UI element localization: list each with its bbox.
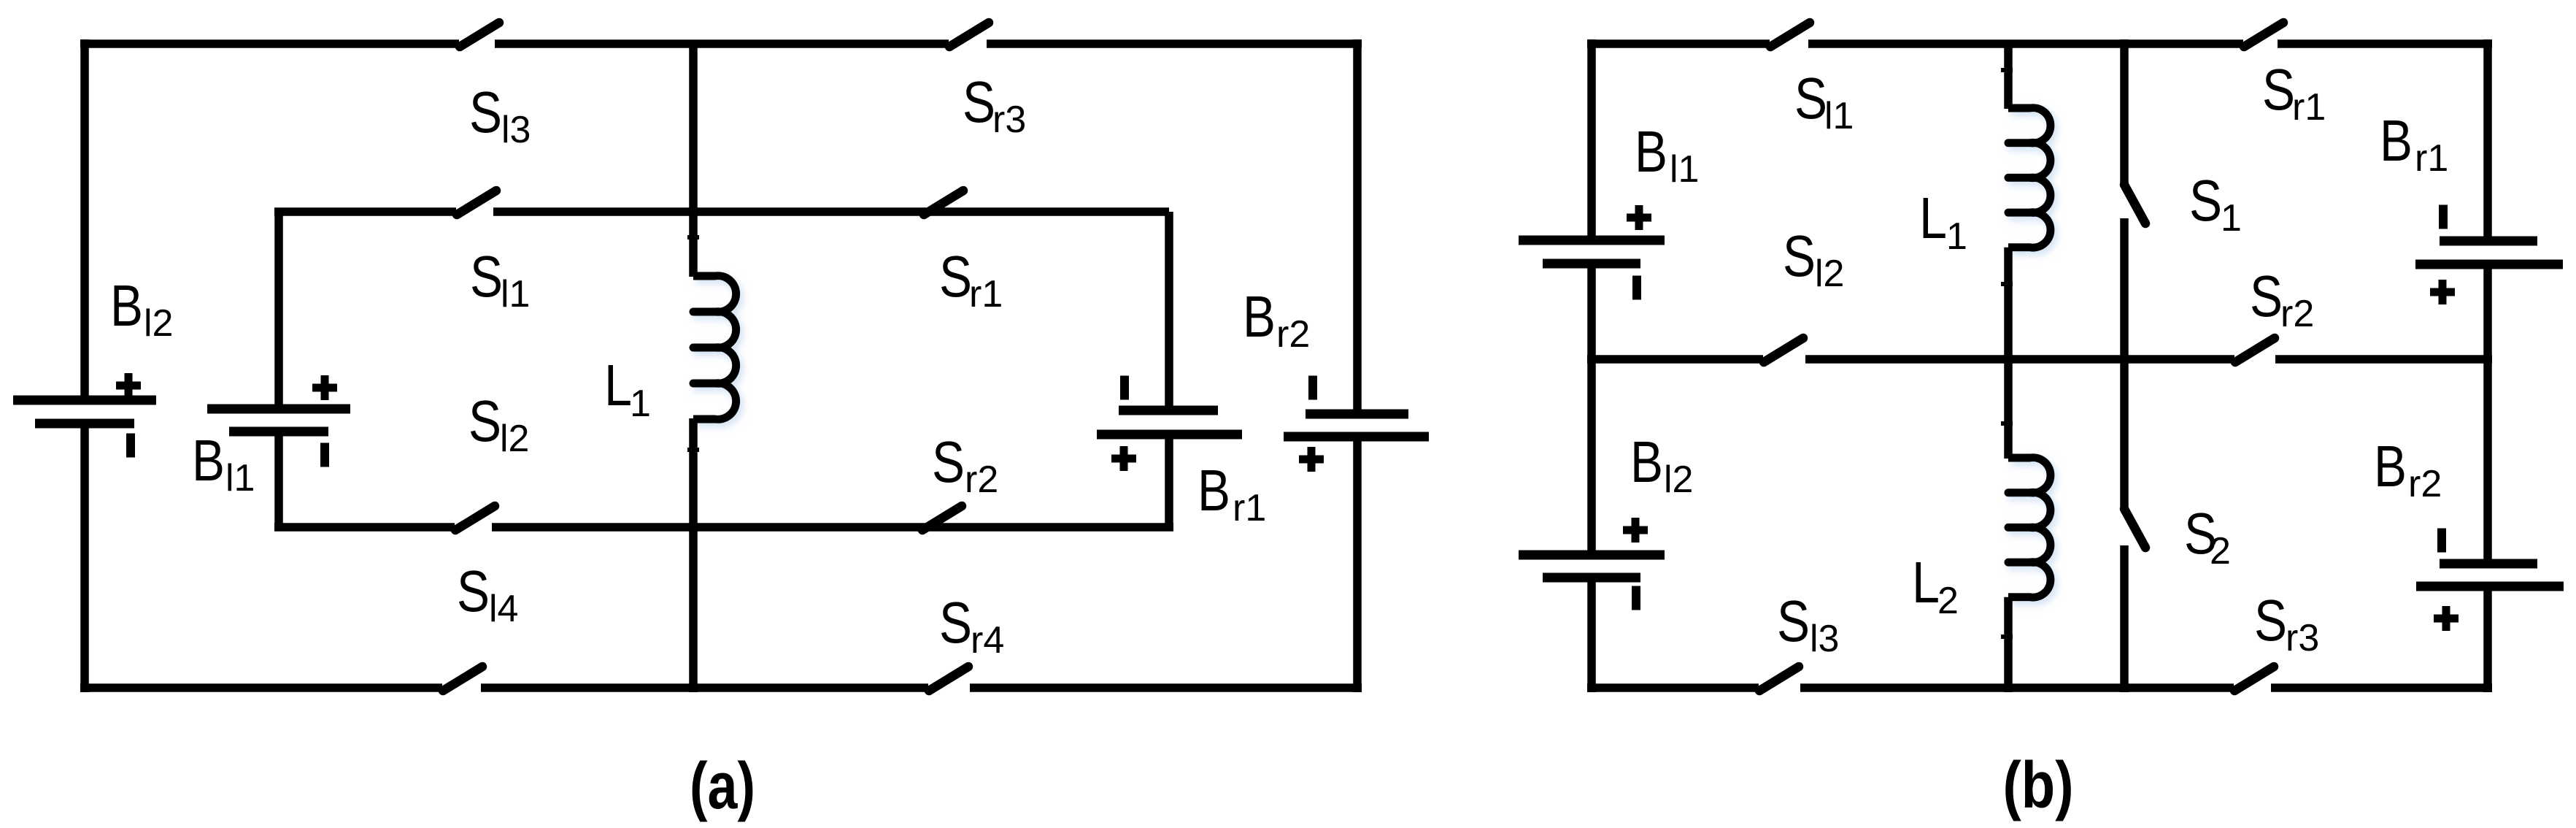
svg-text:(a): (a) (690, 750, 755, 823)
svg-text:r1: r1 (2292, 86, 2326, 129)
wire: fig (b) left vertical (1587, 39, 1596, 692)
wire: fig (a) top rail (80, 39, 1362, 48)
wire: fig (b) S column lower (2120, 545, 2129, 692)
svg-text:B: B (110, 273, 143, 338)
svg-text:l1: l1 (1824, 95, 1854, 137)
caption (a) (690, 750, 755, 823)
svg-text:r1: r1 (969, 273, 1003, 315)
node: L2 (b) top connector (2001, 421, 2013, 426)
wire: fig (a) left vertical (80, 39, 89, 692)
svg-text:r1: r1 (2415, 137, 2448, 180)
wire: fig (a) center column upper (689, 44, 698, 277)
inductor L1 (b) coil (2008, 108, 2051, 248)
switch Sl2 (b) lever (1764, 338, 1803, 362)
svg-text:l1: l1 (501, 273, 530, 315)
switch Sl4 label (457, 559, 518, 630)
wire: fig (a) inner top rail (274, 207, 1169, 216)
svg-text:1: 1 (630, 383, 651, 425)
svg-text:l4: l4 (489, 588, 518, 630)
svg-text:1: 1 (1946, 215, 1967, 258)
battery Bl2 (b) label (1630, 429, 1693, 501)
svg-text:S: S (2250, 264, 2283, 329)
battery Bl1 label (192, 428, 255, 499)
svg-text:L: L (1919, 185, 1947, 250)
switch Sr3 (b) lever (2234, 667, 2274, 691)
svg-text:r3: r3 (2286, 617, 2319, 659)
node: L2 (b) bottom connector (2001, 635, 2013, 639)
inductor L2 (b) label (1912, 550, 1959, 622)
battery Br1 (b) (2415, 205, 2563, 305)
svg-text:L: L (604, 353, 632, 418)
wire: fig (a) inner bottom rail (274, 523, 1173, 532)
svg-text:S: S (1777, 589, 1810, 653)
wire: fig (b) S column middle (2120, 218, 2129, 507)
battery Br2 (1284, 376, 1429, 472)
node: L1 (b) top connector (2001, 68, 2013, 72)
switch S2 label (2184, 501, 2231, 572)
battery Bl1 (207, 375, 350, 467)
wire: Bl1 top stem (274, 212, 283, 409)
wire: fig (a) center column lower (689, 418, 698, 692)
svg-text:l3: l3 (1810, 618, 1839, 660)
switch Sl4 lever (443, 667, 482, 691)
svg-text:r2: r2 (2280, 293, 2314, 335)
svg-text:r4: r4 (971, 619, 1004, 662)
svg-text:r1: r1 (1233, 487, 1266, 529)
switch Sr3 (b) label (2254, 588, 2319, 659)
inductor L1 label (604, 353, 651, 425)
switch Sr4 lever (929, 667, 968, 691)
battery Br1 (1097, 376, 1242, 472)
node: L1 (b) bottom connector (2001, 282, 2013, 286)
wire: fig (b) S column upper (2120, 39, 2129, 183)
svg-text:l2: l2 (500, 418, 529, 460)
svg-text:S: S (963, 69, 995, 134)
switch Sr3 lever (949, 23, 989, 47)
wire: fig (b) top rail (1587, 39, 2492, 48)
battery Br2 (b) label (2374, 434, 2442, 505)
svg-text:r2: r2 (2408, 463, 2442, 505)
svg-text:S: S (457, 559, 490, 624)
svg-text:S: S (2254, 588, 2287, 653)
switch Sr2 lever (922, 506, 962, 530)
battery Bl2 (b) (1519, 518, 1665, 610)
caption (b) (2003, 749, 2074, 822)
wire: fig (b) right vertical (2483, 39, 2492, 692)
switch Sl1 lever (457, 191, 496, 215)
svg-text:B: B (192, 428, 225, 493)
svg-text:l1: l1 (225, 457, 255, 499)
svg-text:S: S (469, 80, 502, 145)
switch Sl1 label (470, 244, 530, 315)
wire: fig (b) middle rail (1587, 355, 2492, 364)
svg-text:S: S (2189, 168, 2222, 233)
svg-text:L: L (1912, 550, 1940, 615)
switch S1 lever (2124, 185, 2145, 223)
svg-text:l2: l2 (1815, 253, 1844, 295)
battery Bl2 (13, 373, 156, 458)
node: inductor bottom connector (687, 448, 699, 452)
wire: fig (b) L column middle (2004, 248, 2013, 459)
switch Sl3 label (469, 80, 531, 151)
svg-text:S: S (468, 388, 501, 453)
battery Br1 label (1198, 458, 1266, 529)
inductor L1 coil (693, 276, 736, 420)
switch Sr1 label (939, 244, 1003, 315)
switch Sl3 (b) label (1777, 589, 1839, 660)
switch Sl2 lever (455, 506, 495, 530)
svg-text:S: S (1783, 223, 1816, 288)
node: inductor top connector (687, 235, 699, 239)
svg-text:r3: r3 (992, 99, 1026, 141)
switch Sl3 (b) lever (1759, 667, 1799, 691)
svg-text:B: B (2380, 108, 2413, 173)
battery Br2 (b) (2416, 529, 2564, 632)
wire: fig (a) bottom rail (80, 683, 1362, 692)
wire: Br1 bottom stem (1165, 434, 1173, 527)
switch Sr1 lever (924, 191, 963, 215)
battery Bl2 label (110, 273, 173, 345)
svg-text:(b): (b) (2003, 749, 2074, 822)
svg-text:S: S (1794, 66, 1827, 131)
wire: fig (b) L column bottom (2004, 597, 2013, 692)
switch Sl2 (b) label (1783, 223, 1844, 295)
svg-text:B: B (1198, 458, 1230, 523)
battery Bl1 (b) (1519, 205, 1665, 300)
wire: fig (b) bottom rail (1587, 683, 2492, 692)
wire: fig (b) L column top (2004, 44, 2013, 109)
battery Br1 (b) label (2380, 108, 2448, 180)
svg-text:l1: l1 (1670, 148, 1699, 191)
svg-text:S: S (939, 244, 972, 309)
switch Sr4 label (939, 590, 1004, 662)
inductor L2 (b) coil (2008, 458, 2051, 597)
switch Sr1 (b) label (2262, 57, 2326, 129)
switch Sr1 (b) lever (2244, 23, 2283, 47)
svg-text:S: S (2262, 57, 2295, 122)
switch Sl3 lever (460, 23, 499, 47)
switch S2 lever (2124, 509, 2145, 548)
switch Sr3 label (963, 69, 1026, 141)
switch S1 label (2189, 168, 2242, 239)
svg-text:l2: l2 (1664, 459, 1693, 501)
svg-text:B: B (1243, 284, 1276, 349)
svg-text:S: S (932, 429, 965, 494)
svg-text:S: S (939, 590, 972, 655)
switch Sl1 (b) label (1794, 66, 1854, 137)
wire: Bl1 bottom stem (274, 432, 283, 527)
svg-text:B: B (1635, 119, 1667, 184)
svg-text:r2: r2 (1276, 313, 1310, 356)
svg-text:l2: l2 (144, 302, 173, 345)
switch Sr2 label (932, 429, 998, 501)
wire: Br1 top stem (1165, 212, 1173, 410)
svg-text:l3: l3 (501, 109, 531, 151)
svg-text:B: B (2374, 434, 2407, 499)
svg-text:2: 2 (2210, 530, 2231, 572)
switch Sr2 (b) label (2250, 264, 2314, 335)
switch Sl1 (b) lever (1770, 23, 1810, 47)
svg-text:B: B (1630, 429, 1663, 494)
svg-text:2: 2 (1937, 580, 1959, 622)
svg-text:S: S (470, 244, 503, 309)
svg-text:1: 1 (2221, 197, 2242, 239)
wire: fig (a) right vertical (1353, 39, 1362, 692)
battery Bl1 (b) label (1635, 119, 1699, 191)
svg-text:r2: r2 (965, 459, 998, 501)
switch Sr2 (b) lever (2235, 338, 2275, 362)
switch Sl2 label (468, 388, 529, 460)
battery Br2 label (1243, 284, 1310, 356)
inductor L1 (b) label (1919, 185, 1967, 258)
